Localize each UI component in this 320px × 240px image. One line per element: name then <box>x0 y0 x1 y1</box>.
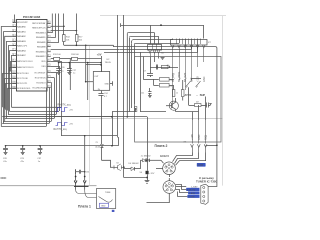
svg-text:RC2/CCP1: RC2/CCP1 <box>17 83 28 85</box>
resistor pair vertical <box>172 80 184 101</box>
svg-text:MCLR/VPP: MCLR/VPP <box>17 22 28 24</box>
svg-text:+12V: +12V <box>149 173 155 175</box>
svg-text:VDD: VDD <box>41 61 46 63</box>
ground cap near X6 <box>161 58 165 60</box>
wire RB nets top <box>51 14 77 43</box>
tuner pin labels <box>186 186 199 198</box>
wire rb2 to x7 <box>114 45 186 46</box>
resistor R13 <box>51 54 72 61</box>
connector GX12-5 plug <box>163 178 176 193</box>
relay K2 <box>110 162 125 170</box>
ground bottom <box>145 174 150 183</box>
node RA6 annotation <box>56 103 74 111</box>
capacitor C27 <box>67 63 77 75</box>
blue mark under tune box <box>112 210 115 212</box>
svg-text:19: 19 <box>47 64 49 66</box>
board Плата 1 tune box <box>97 189 116 209</box>
svg-text:RA6/OSC2/CLKO: RA6/OSC2/CLKO <box>17 66 34 69</box>
svg-text:RA7/TX_осц: RA7/TX_осц <box>54 128 68 131</box>
wire MCLR <box>13 22 15 24</box>
svg-text:RA1/AN1: RA1/AN1 <box>17 30 27 33</box>
capacitor block plata2 top <box>144 65 179 78</box>
svg-text:RB2/AN8: RB2/AN8 <box>37 46 47 49</box>
svg-text:RA7/OSC1/CLKI: RA7/OSC1/CLKI <box>17 60 33 63</box>
svg-text:RA4/CCP5: RA4/CCP5 <box>17 45 28 48</box>
svg-text:PIC16F1938: PIC16F1938 <box>23 15 41 19</box>
wire left bus <box>1 27 16 127</box>
svg-text:Плата 2: Плата 2 <box>155 144 168 148</box>
svg-text:C11: C11 <box>141 93 144 95</box>
svg-text:R16 100: R16 100 <box>71 54 79 56</box>
svg-text:22: 22 <box>47 50 49 52</box>
svg-text:RC1/T1OSI: RC1/T1OSI <box>17 78 28 80</box>
svg-text:RB7/ICSPDAT: RB7/ICSPDAT <box>32 22 46 25</box>
label K razyemu TUNER <box>196 176 217 184</box>
svg-text:RC7/RX/DT: RC7/RX/DT <box>35 72 47 74</box>
diode D4 1N4002 <box>124 163 141 171</box>
svg-text:RB0/AN12: RB0/AN12 <box>36 55 47 58</box>
svg-text:A_Б4: A_Б4 <box>96 146 100 149</box>
svg-text:28: 28 <box>47 22 49 24</box>
capacitor C24 <box>98 91 108 99</box>
wire long net <box>2 108 147 152</box>
svg-text:RC4/SDI/SDA: RC4/SDI/SDA <box>33 86 47 89</box>
svg-text:20: 20 <box>47 60 49 62</box>
capacitor C26 <box>56 63 65 75</box>
svg-text:RB1/AN10: RB1/AN10 <box>36 51 47 54</box>
svg-text:21: 21 <box>47 55 49 57</box>
wire SDA/SCL rail <box>64 44 114 46</box>
svg-text:RC3/SCK/SCL: RC3/SCK/SCL <box>17 88 31 90</box>
svg-text:24: 24 <box>47 41 49 43</box>
connector X6 <box>148 25 165 56</box>
svg-text:В2_РУЛЬ: В2_РУЛЬ <box>178 71 181 82</box>
connector X7 <box>104 39 211 57</box>
fuse F1 +12V <box>140 152 155 175</box>
svg-text:RB6/ICSPCLK: RB6/ICSPCLK <box>32 28 46 30</box>
resistor R12 10k <box>63 26 71 45</box>
wire net top with tick <box>121 23 204 38</box>
capacitor C29 <box>20 146 25 163</box>
svg-text:RB4/AN11: RB4/AN11 <box>36 36 47 39</box>
svg-text:Плата 1: Плата 1 <box>78 204 91 208</box>
capacitor C37 <box>37 146 42 163</box>
wire osc verticals <box>118 15 124 167</box>
connector X5 <box>184 97 208 153</box>
svg-text:27: 27 <box>47 26 49 28</box>
wire cap row <box>5 145 119 147</box>
wire bottom bundle <box>1 107 112 126</box>
wire r16 branch <box>69 59 71 90</box>
svg-text:TUNE: TUNE <box>105 192 111 194</box>
svg-text:+5V: +5V <box>69 110 73 112</box>
svg-text:ООС: ООС <box>1 176 7 180</box>
svg-text:ВНР: ВНР <box>200 94 206 97</box>
resistor R17 10k <box>76 31 84 46</box>
capacitor C28 <box>3 146 8 163</box>
svg-text:4k7: 4k7 <box>196 101 199 103</box>
svg-text:15: 15 <box>47 86 49 88</box>
connector TUNER IC-7300 <box>201 184 208 204</box>
wire right drops <box>47 61 62 126</box>
svg-text:+12В: +12В <box>191 134 194 140</box>
wire rb1 to x7 <box>120 48 192 50</box>
capacitor C31 branch <box>75 136 90 178</box>
op IC U1 PIC16F1938 <box>12 15 51 91</box>
svg-text:RE3/AN7: RE3/AN7 <box>17 54 27 57</box>
svg-text:+5V: +5V <box>69 124 73 126</box>
svg-text:1k: 1k <box>176 93 178 95</box>
regulator U2 78L05 <box>86 59 113 91</box>
svg-text:16: 16 <box>47 81 49 83</box>
svg-text:GND: GND <box>203 76 206 82</box>
wire staircase <box>127 33 180 118</box>
wire 5v rail <box>58 56 102 72</box>
svg-text:+5V: +5V <box>97 52 102 56</box>
svg-text:3 АУД: 3 АУД <box>189 192 195 195</box>
svg-text:2З: 2З <box>96 142 98 144</box>
svg-text:C31: C31 <box>86 172 89 174</box>
svg-text:23: 23 <box>47 45 49 47</box>
wire x6 drops <box>151 57 159 68</box>
wire vdd vertical <box>85 45 88 100</box>
svg-text:TUNER IC-7300: TUNER IC-7300 <box>196 179 217 183</box>
svg-text:GND: GND <box>101 206 106 208</box>
capacitor c11 <box>141 88 152 98</box>
svg-text:8 МОЛЧ: 8 МОЛЧ <box>187 190 196 192</box>
svg-text:АУТ: АУТ <box>190 77 193 82</box>
node RA7 annotation <box>54 123 74 131</box>
wires X5 to GX12 <box>173 153 206 166</box>
connector pins to plata1 <box>74 177 89 190</box>
svg-text:АУД: АУД <box>205 135 208 140</box>
switches AUTO/VNR <box>185 79 206 98</box>
svg-text:VSS: VSS <box>41 66 46 68</box>
svg-text:СОМ: СОМ <box>198 165 203 167</box>
svg-text:GND: GND <box>198 134 201 140</box>
svg-text:2х 1N4002: 2х 1N4002 <box>141 155 152 157</box>
pads plata2 left edge <box>135 107 137 112</box>
svg-text:25: 25 <box>47 36 49 38</box>
svg-text:RA3/AN3: RA3/AN3 <box>17 40 27 43</box>
wire RB1 rail <box>51 48 120 50</box>
svg-text:↔: ↔ <box>196 94 199 97</box>
wire COM long <box>185 47 218 187</box>
svg-text:RA6/TX_осц: RA6/TX_осц <box>58 103 72 106</box>
svg-text:RA0/AN0: RA0/AN0 <box>17 26 27 29</box>
svg-text:RA2/AN2: RA2/AN2 <box>17 35 27 38</box>
page seam lines <box>0 16 226 186</box>
resistor R16 <box>71 54 101 61</box>
relay coils stack <box>154 78 174 88</box>
svg-text:ВЗ_ПИТ: ВЗ_ПИТ <box>184 72 187 82</box>
svg-text:GND: GND <box>105 83 110 85</box>
svg-text:RC6/TX/CK: RC6/TX/CK <box>35 77 46 79</box>
svg-text:RA5/AN4: RA5/AN4 <box>17 49 27 52</box>
wires into tune box <box>76 190 97 198</box>
wire k2 bottom <box>124 167 148 177</box>
node COM highlight <box>197 163 206 167</box>
svg-text:GX12-5: GX12-5 <box>160 154 169 158</box>
svg-text:78L05: 78L05 <box>105 62 112 64</box>
board Плата 2 <box>135 57 221 148</box>
diodes 2x 1N4002 <box>141 155 162 168</box>
svg-text:RC0/T1OSO: RC0/T1OSO <box>17 73 29 75</box>
svg-text:4 GND: 4 GND <box>188 197 195 199</box>
wire mid net <box>61 111 117 137</box>
plata2 bottom wires <box>140 52 199 112</box>
svg-text:18: 18 <box>47 71 49 73</box>
svg-text:26: 26 <box>47 31 49 33</box>
svg-text:АУТО: АУТО <box>185 94 192 97</box>
wires plug to tuner <box>147 185 189 203</box>
connector GX12-5 socket <box>156 154 175 177</box>
svg-text:1u: 1u <box>73 73 75 75</box>
transistor Q4 <box>166 98 178 112</box>
svg-text:+12В: +12В <box>197 76 200 82</box>
svg-text:RB5/AN13: RB5/AN13 <box>36 31 47 34</box>
resistor r20 + cap <box>189 87 212 107</box>
svg-text:17: 17 <box>47 76 49 78</box>
svg-text:D4 1N4002: D4 1N4002 <box>129 163 140 165</box>
zener ZD1 <box>96 99 111 167</box>
wire x7 drops with labels <box>172 57 206 109</box>
svg-text:RC5/SDO: RC5/SDO <box>36 82 46 84</box>
svg-text:R13 100: R13 100 <box>53 54 61 56</box>
svg-text:RB3/AN9: RB3/AN9 <box>37 41 47 44</box>
svg-text:1u: 1u <box>61 71 63 73</box>
